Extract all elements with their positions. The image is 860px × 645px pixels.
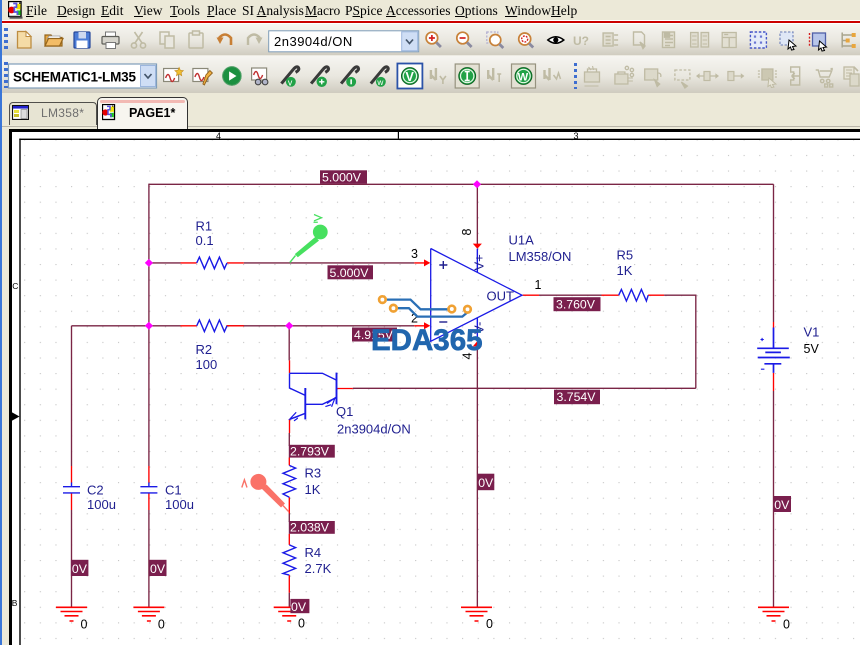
svg-text:C: C — [12, 281, 18, 291]
svg-text:U1A: U1A — [509, 233, 535, 248]
svg-text:R5: R5 — [617, 248, 634, 263]
svg-text:0V: 0V — [478, 476, 494, 490]
svg-text:2n3904d/ON: 2n3904d/ON — [337, 422, 411, 437]
svg-text:B: B — [12, 598, 18, 608]
svg-text:1K: 1K — [617, 263, 633, 278]
svg-text:R2: R2 — [196, 342, 213, 357]
svg-text:3: 3 — [411, 247, 418, 261]
svg-text:0V: 0V — [774, 498, 790, 512]
svg-text:R1: R1 — [196, 219, 213, 234]
svg-text:0: 0 — [783, 618, 790, 632]
svg-text:2.7K: 2.7K — [305, 561, 332, 576]
svg-text:0: 0 — [158, 618, 165, 632]
svg-text:8: 8 — [460, 229, 474, 236]
svg-text:100: 100 — [196, 357, 218, 372]
svg-text:3.760V: 3.760V — [556, 298, 596, 312]
svg-text:5V: 5V — [804, 342, 820, 356]
svg-text:0V: 0V — [72, 562, 88, 576]
svg-text:3.754V: 3.754V — [557, 390, 597, 404]
svg-text:EDA365: EDA365 — [371, 324, 483, 357]
svg-text:V+: V+ — [472, 254, 487, 270]
svg-text:R4: R4 — [305, 545, 322, 560]
svg-text:100u: 100u — [87, 497, 116, 512]
svg-text:1: 1 — [535, 278, 542, 292]
svg-text:R3: R3 — [305, 466, 322, 481]
svg-text:LM358/ON: LM358/ON — [509, 249, 572, 264]
svg-text:C2: C2 — [87, 483, 104, 498]
svg-text:0: 0 — [298, 617, 305, 631]
svg-text:Q1: Q1 — [336, 404, 353, 419]
svg-text:V1: V1 — [804, 325, 820, 340]
svg-text:100u: 100u — [165, 497, 194, 512]
svg-text:C1: C1 — [165, 483, 182, 498]
svg-text:OUT: OUT — [487, 289, 515, 304]
svg-text:0V: 0V — [291, 600, 307, 614]
svg-text:2.038V: 2.038V — [290, 521, 330, 535]
svg-text:2.793V: 2.793V — [290, 445, 330, 459]
svg-text:3: 3 — [574, 131, 579, 141]
svg-text:0: 0 — [486, 617, 493, 631]
svg-text:4: 4 — [216, 131, 221, 141]
svg-text:0.1: 0.1 — [196, 233, 214, 248]
svg-text:5.000V: 5.000V — [330, 266, 370, 280]
svg-text:0: 0 — [81, 618, 88, 632]
svg-text:1K: 1K — [305, 482, 321, 497]
svg-text:5.000V: 5.000V — [322, 171, 362, 185]
svg-text:0V: 0V — [150, 562, 166, 576]
